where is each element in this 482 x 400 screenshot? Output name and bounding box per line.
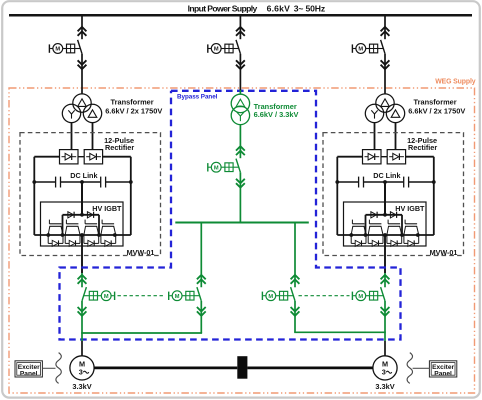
svg-text:M: M <box>55 47 60 53</box>
left incoming breaker auxiliary box <box>67 44 75 53</box>
motor left M 3~ <box>70 356 94 380</box>
bypass incoming breaker auxiliary box <box>225 44 233 53</box>
withdrawable contact chevrons down (bypass incoming breaker) <box>236 60 245 64</box>
bypass switch right terminal <box>263 295 266 297</box>
bypass switch left motor operator <box>182 295 186 297</box>
node: rail junctions (right) <box>349 233 353 237</box>
drive output switch left motor operator <box>98 295 102 297</box>
withdrawable contact chevrons up (left incoming breaker) <box>78 27 87 31</box>
svg-text:DC Link: DC Link <box>373 171 400 180</box>
svg-text:MVW-01: MVW-01 <box>127 248 155 257</box>
svg-text:MVW-01: MVW-01 <box>430 248 458 257</box>
clamp diode D2 (left) <box>87 212 93 218</box>
HV IGBT inverter box (left) <box>41 202 124 246</box>
DC link bus wire (right) <box>337 181 358 183</box>
withdrawable contact chevrons down (bypass switch left) <box>197 307 206 311</box>
bypass breaker blade <box>236 159 240 173</box>
svg-text:HV IGBT: HV IGBT <box>395 204 425 213</box>
left incoming breaker terminal <box>50 48 53 50</box>
motor right M 3~ <box>373 356 397 380</box>
wire: transformer wye secondary to rectifier (right) <box>374 122 376 149</box>
wire: breaker to transformer (left) <box>81 54 83 94</box>
clamp diode branch (left) <box>63 214 100 216</box>
left transformer T secondary winding (wye) <box>62 104 80 122</box>
capacitor C2 (left dc link) <box>100 177 102 188</box>
bypass switch left blade <box>197 287 201 301</box>
bypass switch right blade <box>291 287 295 301</box>
DC link bus wire (left) <box>34 181 55 183</box>
svg-text:M: M <box>214 165 219 171</box>
withdrawable contact chevrons up (bypass switch right) <box>291 275 300 279</box>
svg-text:DC Link: DC Link <box>70 171 97 180</box>
rectifier bridge 2 (left) <box>84 150 102 164</box>
drive output switch right blade <box>381 287 385 301</box>
svg-text:Panel: Panel <box>20 370 38 377</box>
bypass transformer primary (delta) <box>231 94 249 112</box>
wire: bypass switch left down + connector <box>200 301 202 333</box>
shaft right <box>247 366 373 369</box>
rectifier bridge 1 (right) <box>363 150 382 164</box>
withdrawable contact chevrons up (bypass breaker) <box>236 146 245 150</box>
svg-text:M: M <box>358 294 363 300</box>
svg-text:HV IGBT: HV IGBT <box>92 204 122 213</box>
left incoming breaker blade <box>78 40 82 54</box>
IGBT Q1 with freewheel diode (left) <box>48 220 50 224</box>
bypass breaker terminal <box>209 166 212 168</box>
input power supply bus <box>9 14 472 17</box>
wire: exciter link left <box>43 367 56 369</box>
drive output switch right motor operator <box>366 295 370 297</box>
bypass switch right linkage <box>288 295 294 297</box>
exciter panel right box <box>429 361 456 377</box>
brush connection squiggle right <box>407 353 412 384</box>
withdrawable contact chevrons up (bypass switch left) <box>197 275 206 279</box>
capacitor C2 (right dc link) <box>403 177 405 188</box>
clamp diode D1 (right) <box>371 212 377 218</box>
wire: left switch down to junction <box>81 301 83 341</box>
bypass switch left terminal <box>169 295 172 297</box>
wire: transformer delta secondary to rectifier (left) <box>92 122 94 149</box>
interlock dashed link right pair <box>299 295 350 297</box>
rectifier bridge 2 (right) <box>387 150 405 164</box>
bypass bus <box>175 222 308 224</box>
wire: breaker down to WEG boundary <box>239 54 241 90</box>
wire: bridge link (right) <box>381 156 387 158</box>
wire: DC+ rail (left) <box>34 156 59 158</box>
wire: right inverter output into switch (green) <box>384 273 386 287</box>
wire: dc midpoint to clamp (left) <box>81 182 83 215</box>
bypass breaker motor operator <box>221 166 225 168</box>
IGBT Q1 with freewheel diode (right) <box>351 220 353 224</box>
clamp diode branch (right) <box>366 214 403 216</box>
bypass incoming breaker terminal <box>209 48 212 50</box>
node: clamp midpoint (left) <box>80 213 84 217</box>
IGBT Q4 with freewheel diode (left) <box>101 220 103 224</box>
rectifier bridge 1 (left) <box>60 150 79 164</box>
right incoming breaker terminal <box>353 48 356 50</box>
svg-text:6.6kV / 2x 1750V: 6.6kV / 2x 1750V <box>408 106 465 115</box>
wire: inverter output (left) <box>81 235 83 273</box>
wire: right switch down to junction <box>384 301 386 341</box>
wire: bypass bus left drop <box>200 223 202 288</box>
svg-text:M: M <box>268 294 273 300</box>
node: dc link junctions (right) <box>335 180 339 184</box>
left transformer T secondary winding (delta) <box>83 104 101 122</box>
drive output switch left terminal <box>111 295 114 297</box>
right transformer T secondary winding (wye) <box>365 104 383 122</box>
brush connection squiggle left <box>56 353 61 384</box>
wire: bypass feeder drop from bus <box>239 15 241 39</box>
withdrawable contact chevrons up (right incoming breaker) <box>381 27 390 31</box>
wire: right motor feed <box>384 341 386 356</box>
withdrawable contact chevrons up (bypass incoming breaker) <box>236 27 245 31</box>
bypass switch left linkage <box>194 295 200 297</box>
withdrawable contact chevrons down (drive output switch right) <box>381 307 390 311</box>
svg-text:Bypass Panel: Bypass Panel <box>177 94 218 101</box>
svg-text:Transformer: Transformer <box>414 98 457 107</box>
drive output switch left blade <box>82 287 86 301</box>
left transformer T primary winding (delta) <box>73 94 91 112</box>
wire: bypass breaker to bypass bus <box>239 172 241 222</box>
svg-text:3.3kV: 3.3kV <box>72 382 91 391</box>
clamp diode D2 (right) <box>390 212 396 218</box>
capacitor C1 (left dc link) <box>55 177 57 188</box>
node: rail junctions (left) <box>46 233 50 237</box>
IGBT Q2 with freewheel diode (right) <box>368 220 370 224</box>
wire: DC- rail (right) <box>406 156 434 158</box>
right incoming breaker blade <box>381 40 385 54</box>
bypass switch left auxiliary box <box>186 291 194 300</box>
bypass incoming breaker motor operator <box>221 48 225 50</box>
svg-text:Input Power Supply: Input Power Supply <box>188 4 258 14</box>
svg-text:3: 3 <box>79 368 83 377</box>
svg-text:3: 3 <box>382 368 386 377</box>
MVW-01 converter dashed enclosure (left) <box>20 133 161 256</box>
svg-text:M: M <box>358 47 363 53</box>
IGBT Q3 with freewheel diode (left) <box>84 220 86 224</box>
bypass switch right auxiliary box <box>280 291 288 300</box>
wire: transformer wye secondary to rectifier (left) <box>71 122 73 149</box>
drive output switch left auxiliary box <box>89 291 97 300</box>
bypass breaker auxiliary box <box>225 163 233 172</box>
phase rail wire (left) <box>34 234 131 236</box>
wire: feeder drop from bus (left) <box>81 15 83 39</box>
wire: bypass switch right down + connector <box>294 301 296 332</box>
shaft coupling <box>237 356 247 379</box>
svg-text:Panel: Panel <box>434 370 452 377</box>
withdrawable contact chevrons down (bypass switch right) <box>291 307 300 311</box>
bypass switch right motor operator <box>276 295 280 297</box>
wire: exciter link right <box>413 367 430 369</box>
wire: dc midpoint to clamp (right) <box>384 182 386 215</box>
wire: left motor feed <box>81 341 83 356</box>
drive output switch right terminal <box>353 295 356 297</box>
withdrawable contact chevrons down (left incoming breaker) <box>78 60 87 64</box>
wire: into bypass transformer (green) <box>239 90 241 94</box>
wire: bridge link (left) <box>78 156 84 158</box>
right transformer T secondary winding (delta) <box>386 104 404 122</box>
svg-text:3.3kV: 3.3kV <box>375 382 394 391</box>
MVW-01 converter dashed enclosure (right) <box>323 133 464 256</box>
bypass panel dashed enclosure (T shape) <box>60 91 401 340</box>
svg-text:M: M <box>104 294 109 300</box>
withdrawable contact chevrons down (right incoming breaker) <box>381 60 390 64</box>
IGBT Q4 with freewheel diode (right) <box>404 220 406 224</box>
shaft left <box>94 366 237 369</box>
wire: bypass bus right drop <box>294 223 296 288</box>
bypass transformer secondary (wye) <box>231 106 249 124</box>
wire: inverter output (right) <box>384 235 386 273</box>
drive output switch right auxiliary box <box>370 291 378 300</box>
phase rail wire (right) <box>337 234 434 236</box>
svg-text:Transformer: Transformer <box>111 98 154 107</box>
svg-text:Rectifier: Rectifier <box>408 143 437 152</box>
WEG supply dashed boundary <box>9 88 475 393</box>
right transformer T primary winding (delta) <box>376 94 394 112</box>
left incoming breaker motor operator <box>63 48 67 50</box>
right incoming breaker motor operator <box>366 48 370 50</box>
exciter panel left box <box>15 361 42 377</box>
bypass incoming breaker blade <box>236 40 240 54</box>
wire: bypass transformer to breaker <box>239 125 241 159</box>
HV IGBT inverter box (right) <box>344 202 427 246</box>
wire: DC- rail (left) <box>103 156 131 158</box>
right incoming breaker auxiliary box <box>370 44 378 53</box>
svg-text:6.6kV / 2x 1750V: 6.6kV / 2x 1750V <box>105 106 162 115</box>
drive output switch left linkage <box>84 295 90 297</box>
IGBT Q3 with freewheel diode (right) <box>387 220 389 224</box>
clamp diode D1 (left) <box>68 212 74 218</box>
node: clamp midpoint (right) <box>383 213 387 217</box>
svg-text:Rectifier: Rectifier <box>105 143 134 152</box>
interlock dashed link left pair <box>118 295 166 297</box>
wire: DC+ rail (right) <box>337 156 362 158</box>
withdrawable contact chevrons up (drive output switch left) <box>78 275 87 279</box>
svg-text:M: M <box>175 294 180 300</box>
svg-text:3~ 50Hz: 3~ 50Hz <box>294 4 325 14</box>
left incoming breaker linkage <box>75 48 81 50</box>
bypass incoming breaker linkage <box>233 48 239 50</box>
capacitor C1 (right dc link) <box>358 177 360 188</box>
IGBT Q2 with freewheel diode (left) <box>65 220 67 224</box>
withdrawable contact chevrons down (bypass breaker) <box>236 179 245 183</box>
svg-text:WEG Supply: WEG Supply <box>435 79 476 86</box>
withdrawable contact chevrons down (drive output switch left) <box>78 307 87 311</box>
bypass breaker linkage <box>233 166 239 168</box>
wire: breaker to transformer (right) <box>384 54 386 94</box>
wire: left inverter output into switch (green) <box>81 273 83 287</box>
drive output switch right linkage <box>378 295 384 297</box>
wire: transformer delta secondary to rectifier (right) <box>395 122 397 149</box>
svg-text:6.6kV: 6.6kV <box>267 4 291 14</box>
right incoming breaker linkage <box>378 48 384 50</box>
node: dc link junctions (left) <box>32 180 36 184</box>
withdrawable contact chevrons up (drive output switch right) <box>381 275 390 279</box>
svg-text:M: M <box>214 47 219 53</box>
wire: feeder drop from bus (right) <box>384 15 386 39</box>
svg-text:6.6kV / 3.3kV: 6.6kV / 3.3kV <box>254 110 299 119</box>
